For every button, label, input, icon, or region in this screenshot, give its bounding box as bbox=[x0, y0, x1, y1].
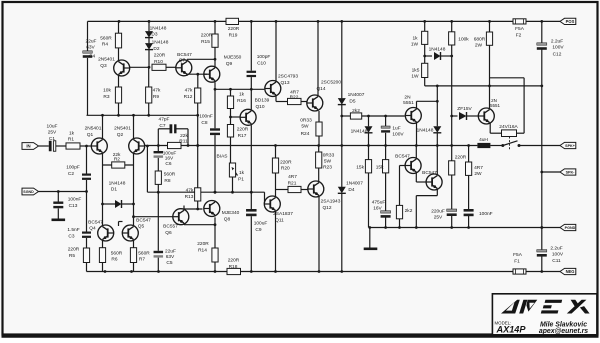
svg-text:1N4148: 1N4148 bbox=[351, 129, 368, 135]
svg-text:220R: 220R bbox=[455, 155, 467, 161]
svg-text:47k: 47k bbox=[185, 88, 193, 94]
svg-text:1k5: 1k5 bbox=[412, 68, 420, 74]
svg-text:R1: R1 bbox=[68, 137, 74, 143]
svg-text:Q11: Q11 bbox=[275, 218, 284, 224]
svg-text:C4: C4 bbox=[89, 54, 95, 60]
svg-text:24V/16A: 24V/16A bbox=[499, 124, 518, 130]
svg-text:Q3: Q3 bbox=[100, 63, 107, 69]
svg-text:BC547: BC547 bbox=[177, 52, 192, 58]
svg-text:Q12: Q12 bbox=[322, 205, 331, 211]
svg-text:5551: 5551 bbox=[403, 100, 414, 106]
svg-text:R7: R7 bbox=[139, 257, 145, 263]
svg-text:Q13: Q13 bbox=[280, 80, 289, 86]
svg-text:2.2uF: 2.2uF bbox=[550, 246, 562, 252]
svg-text:ZF15V: ZF15V bbox=[457, 106, 472, 112]
svg-text:16V: 16V bbox=[373, 206, 382, 212]
svg-text:220R: 220R bbox=[197, 241, 209, 247]
svg-text:Q9: Q9 bbox=[226, 61, 233, 67]
svg-text:R23: R23 bbox=[323, 165, 332, 171]
svg-text:1N4148: 1N4148 bbox=[152, 40, 169, 46]
svg-text:2W: 2W bbox=[474, 171, 482, 177]
svg-text:100pF: 100pF bbox=[257, 54, 271, 60]
svg-text:Q14: Q14 bbox=[316, 86, 325, 92]
svg-text:C9: C9 bbox=[255, 227, 261, 233]
svg-text:560R: 560R bbox=[111, 251, 123, 257]
svg-text:1W: 1W bbox=[411, 74, 419, 80]
svg-text:R19: R19 bbox=[229, 33, 238, 39]
svg-text:2N: 2N bbox=[404, 95, 411, 101]
svg-text:Q8: Q8 bbox=[224, 217, 231, 223]
svg-text:2SC5200: 2SC5200 bbox=[321, 80, 341, 86]
svg-text:R5: R5 bbox=[69, 253, 75, 259]
svg-text:apex@eunet.rs: apex@eunet.rs bbox=[539, 328, 588, 335]
svg-text:1N4148: 1N4148 bbox=[429, 47, 446, 53]
svg-text:0R33: 0R33 bbox=[300, 118, 312, 124]
svg-text:0R33: 0R33 bbox=[323, 153, 335, 159]
svg-text:POS: POS bbox=[566, 19, 575, 24]
svg-text:4R7: 4R7 bbox=[474, 165, 483, 171]
svg-text:16V: 16V bbox=[165, 155, 174, 161]
svg-text:220R: 220R bbox=[68, 247, 80, 253]
svg-text:4R7: 4R7 bbox=[288, 174, 297, 180]
svg-text:47k: 47k bbox=[186, 188, 194, 194]
svg-text:F5A: F5A bbox=[515, 26, 525, 32]
svg-text:R14: R14 bbox=[198, 248, 207, 254]
svg-text:R4: R4 bbox=[102, 42, 108, 48]
svg-text:4uH: 4uH bbox=[479, 137, 488, 143]
svg-text:220R: 220R bbox=[201, 33, 213, 39]
svg-text:C12: C12 bbox=[553, 52, 562, 58]
svg-text:22uF: 22uF bbox=[165, 249, 176, 255]
svg-text:2N5401: 2N5401 bbox=[98, 57, 115, 63]
svg-text:BC547: BC547 bbox=[136, 218, 151, 224]
svg-text:D5: D5 bbox=[349, 99, 355, 105]
svg-text:100nF: 100nF bbox=[68, 197, 82, 203]
svg-text:R21: R21 bbox=[288, 180, 297, 186]
svg-text:F1: F1 bbox=[514, 259, 520, 265]
svg-text:SPK-: SPK- bbox=[566, 171, 576, 175]
svg-text:220R: 220R bbox=[280, 159, 292, 165]
svg-text:100nF: 100nF bbox=[479, 211, 493, 217]
svg-text:SGND: SGND bbox=[23, 190, 34, 194]
svg-text:R24: R24 bbox=[301, 131, 310, 137]
svg-text:220R: 220R bbox=[237, 127, 249, 133]
svg-text:D4: D4 bbox=[348, 187, 354, 193]
svg-text:BC547: BC547 bbox=[422, 170, 437, 176]
svg-text:220R: 220R bbox=[228, 258, 240, 264]
svg-text:100k: 100k bbox=[458, 37, 469, 43]
svg-text:BC557: BC557 bbox=[163, 224, 178, 230]
svg-text:10k: 10k bbox=[103, 88, 111, 94]
svg-text:C2: C2 bbox=[68, 171, 74, 177]
svg-text:2N5401: 2N5401 bbox=[85, 126, 102, 132]
svg-text:C10: C10 bbox=[257, 61, 266, 67]
svg-text:C5: C5 bbox=[166, 260, 172, 266]
svg-text:2.2uF: 2.2uF bbox=[551, 39, 563, 45]
svg-text:1N4148: 1N4148 bbox=[417, 128, 434, 134]
svg-text:1k: 1k bbox=[239, 92, 245, 98]
svg-text:100V: 100V bbox=[392, 132, 404, 138]
svg-text:475uF: 475uF bbox=[372, 200, 386, 206]
svg-text:10uF: 10uF bbox=[47, 124, 58, 130]
svg-text:F5A: F5A bbox=[513, 252, 523, 258]
svg-text:NEG: NEG bbox=[566, 269, 575, 274]
svg-text:P1: P1 bbox=[238, 177, 244, 183]
svg-text:MJE350: MJE350 bbox=[224, 55, 242, 61]
svg-text:47k: 47k bbox=[153, 88, 161, 94]
svg-text:R13: R13 bbox=[185, 194, 194, 200]
svg-text:Q6: Q6 bbox=[165, 230, 172, 236]
svg-text:D3: D3 bbox=[151, 32, 157, 38]
svg-text:SPK+: SPK+ bbox=[565, 144, 575, 148]
svg-text:2SA1837: 2SA1837 bbox=[273, 211, 293, 217]
svg-text:F2: F2 bbox=[516, 33, 522, 39]
svg-text:IN: IN bbox=[26, 144, 30, 149]
svg-text:1k: 1k bbox=[239, 170, 245, 176]
svg-text:22k: 22k bbox=[180, 133, 188, 139]
svg-text:R12: R12 bbox=[184, 94, 193, 100]
svg-text:2N5401: 2N5401 bbox=[114, 126, 131, 132]
svg-text:Q2: Q2 bbox=[117, 132, 124, 138]
svg-text:C7: C7 bbox=[159, 123, 165, 129]
svg-text:C13: C13 bbox=[69, 203, 78, 209]
svg-text:1N4007: 1N4007 bbox=[348, 92, 365, 98]
svg-text:C3: C3 bbox=[68, 234, 74, 240]
svg-text:2W: 2W bbox=[475, 43, 483, 49]
svg-text:R3: R3 bbox=[103, 94, 109, 100]
svg-text:63V: 63V bbox=[86, 45, 95, 51]
svg-text:1k: 1k bbox=[412, 36, 418, 42]
svg-text:560R: 560R bbox=[100, 36, 112, 42]
svg-text:PGND: PGND bbox=[565, 226, 576, 230]
svg-text:2k2: 2k2 bbox=[352, 108, 360, 114]
svg-text:R2: R2 bbox=[114, 157, 120, 163]
svg-text:R6: R6 bbox=[111, 257, 117, 263]
svg-text:BIAS: BIAS bbox=[217, 154, 228, 160]
svg-text:680R: 680R bbox=[474, 37, 486, 43]
svg-text:63V: 63V bbox=[166, 254, 175, 260]
svg-text:25V: 25V bbox=[48, 130, 57, 136]
svg-text:R11: R11 bbox=[179, 138, 188, 144]
svg-text:BD139: BD139 bbox=[255, 98, 270, 104]
svg-text:R10: R10 bbox=[154, 59, 163, 65]
svg-text:R15: R15 bbox=[201, 39, 210, 45]
svg-text:C8: C8 bbox=[201, 120, 207, 126]
svg-text:15k: 15k bbox=[376, 165, 384, 171]
svg-text:MJE340: MJE340 bbox=[222, 210, 240, 216]
svg-text:100uF: 100uF bbox=[254, 221, 268, 227]
svg-text:25V: 25V bbox=[434, 215, 443, 221]
svg-text:1uF: 1uF bbox=[392, 126, 400, 132]
svg-text:Q10: Q10 bbox=[255, 104, 264, 110]
svg-text:R20: R20 bbox=[281, 165, 290, 171]
svg-text:1W: 1W bbox=[411, 42, 419, 48]
svg-text:BC547: BC547 bbox=[395, 153, 410, 159]
svg-text:D1: D1 bbox=[111, 187, 117, 193]
svg-text:R17: R17 bbox=[238, 133, 247, 139]
svg-text:100pF: 100pF bbox=[66, 165, 80, 171]
svg-text:BC547: BC547 bbox=[88, 220, 103, 226]
svg-text:R18: R18 bbox=[229, 264, 238, 270]
svg-text:Q5: Q5 bbox=[138, 224, 145, 230]
svg-text:C1: C1 bbox=[49, 136, 55, 142]
svg-text:2k2: 2k2 bbox=[405, 208, 413, 214]
svg-text:47pF: 47pF bbox=[159, 117, 170, 123]
svg-text:220R: 220R bbox=[154, 53, 166, 59]
svg-text:D2: D2 bbox=[153, 46, 159, 52]
svg-text:R8: R8 bbox=[164, 178, 170, 184]
svg-text:220R: 220R bbox=[228, 26, 240, 32]
svg-text:1N4148: 1N4148 bbox=[109, 181, 126, 187]
svg-text:5W: 5W bbox=[301, 124, 309, 130]
svg-text:1N4148: 1N4148 bbox=[150, 25, 167, 31]
svg-text:C11: C11 bbox=[552, 258, 561, 264]
svg-text:2SA1943: 2SA1943 bbox=[321, 199, 341, 205]
svg-text:Q1: Q1 bbox=[87, 132, 94, 138]
svg-text:560R: 560R bbox=[138, 251, 150, 257]
svg-text:100V: 100V bbox=[552, 252, 564, 258]
svg-text:100nF: 100nF bbox=[199, 114, 213, 120]
svg-text:R22: R22 bbox=[290, 95, 299, 101]
svg-text:AX14P: AX14P bbox=[495, 324, 526, 334]
svg-text:1k: 1k bbox=[69, 131, 75, 137]
svg-text:220uF: 220uF bbox=[431, 209, 445, 215]
svg-text:R16: R16 bbox=[237, 98, 246, 104]
svg-text:R9: R9 bbox=[153, 94, 159, 100]
svg-text:C6: C6 bbox=[165, 161, 171, 167]
svg-text:22uF: 22uF bbox=[86, 39, 97, 45]
svg-text:560R: 560R bbox=[164, 172, 176, 178]
svg-text:Q7: Q7 bbox=[179, 58, 186, 64]
svg-text:1.5nF: 1.5nF bbox=[67, 227, 79, 233]
svg-text:1N4007: 1N4007 bbox=[346, 181, 363, 187]
svg-text:15k: 15k bbox=[356, 165, 364, 171]
svg-text:Q4: Q4 bbox=[89, 226, 96, 232]
svg-text:5W: 5W bbox=[324, 159, 332, 165]
svg-text:5551: 5551 bbox=[490, 103, 501, 108]
svg-text:2SC4793: 2SC4793 bbox=[278, 74, 298, 80]
svg-text:100V: 100V bbox=[552, 45, 564, 51]
